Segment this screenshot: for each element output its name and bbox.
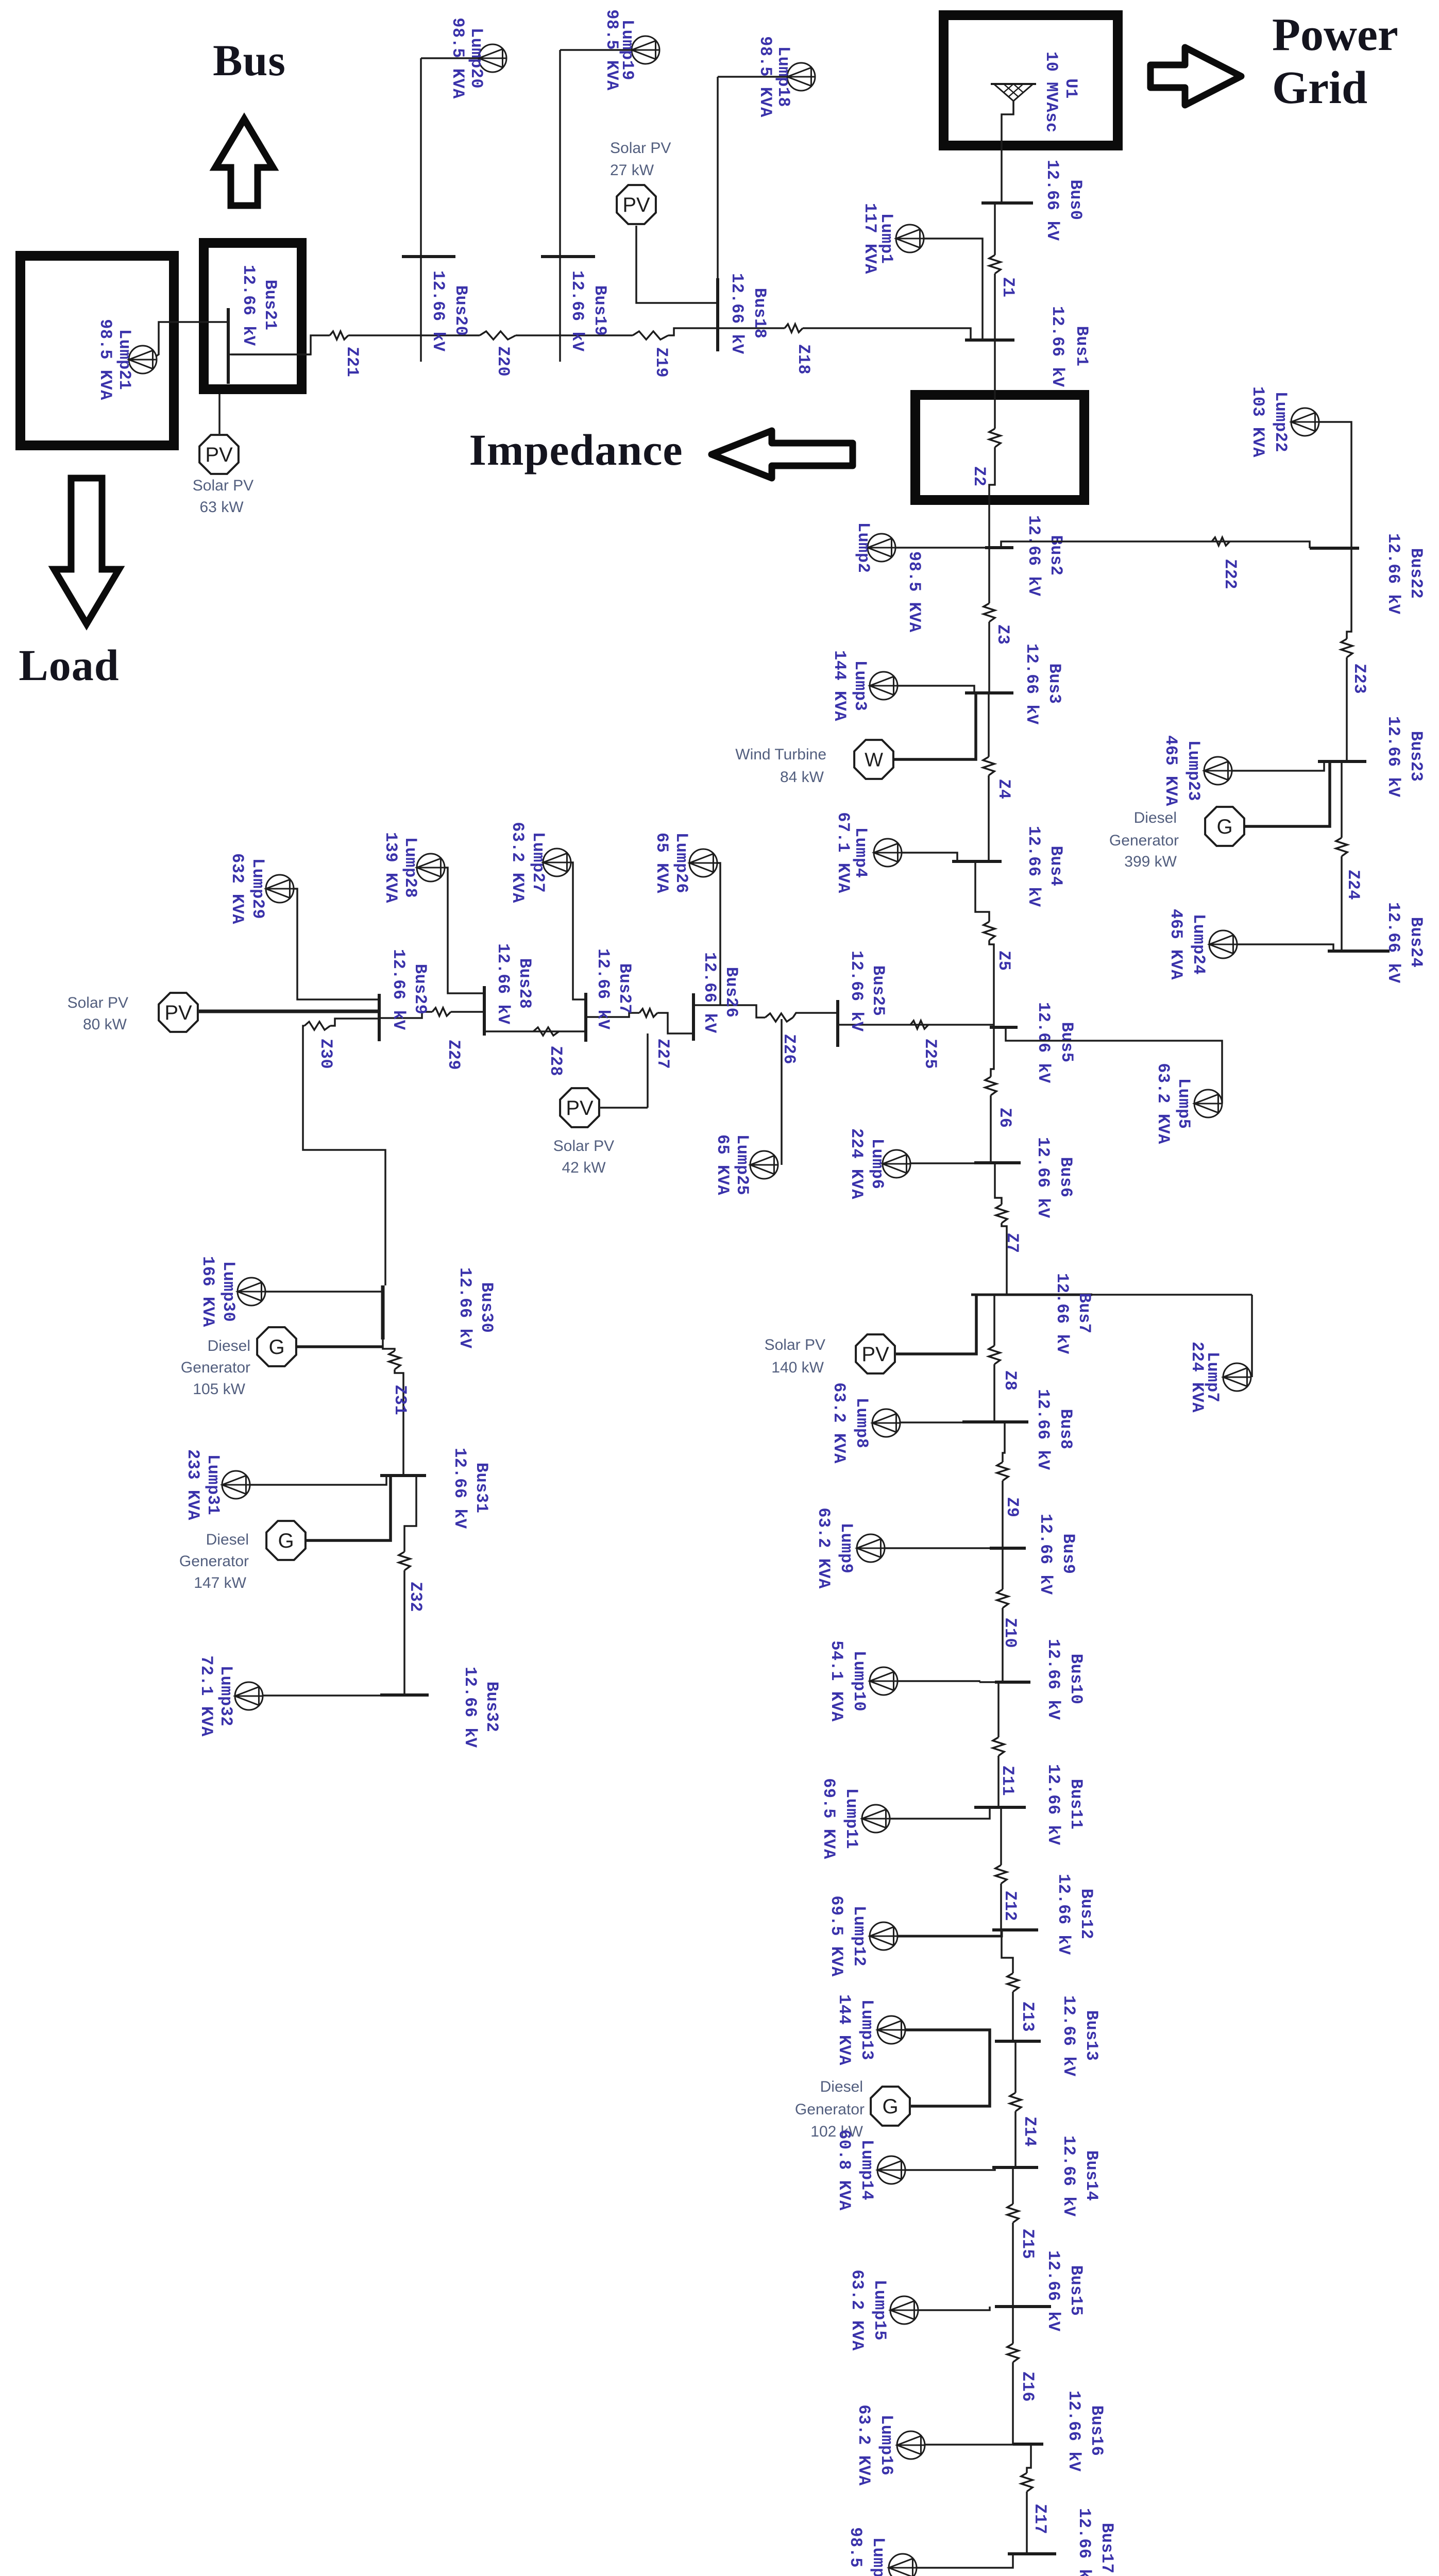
svg-text:12.66 kV: 12.66 kV xyxy=(1384,716,1403,798)
svg-text:Bus21: Bus21 xyxy=(261,280,280,331)
svg-text:Lump29: Lump29 xyxy=(248,858,267,919)
svg-text:Bus31: Bus31 xyxy=(472,1463,491,1514)
svg-text:Z16: Z16 xyxy=(1018,2371,1037,2402)
svg-text:Bus18: Bus18 xyxy=(750,288,769,339)
svg-text:12.66 kV: 12.66 kV xyxy=(1036,1514,1055,1595)
svg-text:65 KVA: 65 KVA xyxy=(713,1134,732,1196)
svg-text:Bus30: Bus30 xyxy=(477,1282,496,1333)
svg-text:Generator: Generator xyxy=(179,1553,249,1570)
svg-text:Bus15: Bus15 xyxy=(1066,2265,1086,2316)
svg-text:117 KVA: 117 KVA xyxy=(860,203,879,274)
svg-text:98.5 KVA: 98.5 KVA xyxy=(96,319,115,400)
svg-text:Generator: Generator xyxy=(1109,832,1179,849)
svg-text:Solar PV: Solar PV xyxy=(610,140,671,157)
svg-text:63.2 KVA: 63.2 KVA xyxy=(829,1382,849,1464)
svg-text:84 kW: 84 kW xyxy=(780,769,824,786)
svg-text:63.2 KVA: 63.2 KVA xyxy=(854,2404,873,2486)
svg-text:Bus26: Bus26 xyxy=(722,967,741,1018)
svg-text:Bus8: Bus8 xyxy=(1056,1409,1075,1450)
svg-text:54.1 KVA: 54.1 KVA xyxy=(827,1640,846,1722)
svg-text:Z5: Z5 xyxy=(994,951,1013,971)
svg-text:12.66 kV: 12.66 kV xyxy=(568,270,587,352)
svg-text:Lump25: Lump25 xyxy=(733,1134,752,1195)
svg-text:Lump27: Lump27 xyxy=(529,832,548,893)
svg-text:Bus32: Bus32 xyxy=(482,1682,501,1733)
svg-text:140 kW: 140 kW xyxy=(771,1359,824,1376)
svg-text:Solar PV: Solar PV xyxy=(193,477,253,494)
svg-text:Bus7: Bus7 xyxy=(1075,1293,1094,1334)
svg-text:67.1 KVA: 67.1 KVA xyxy=(834,812,853,893)
svg-text:Lump12: Lump12 xyxy=(850,1906,869,1967)
svg-text:12.66 kV: 12.66 kV xyxy=(1048,306,1067,387)
svg-text:12.66 kV: 12.66 kV xyxy=(389,949,408,1030)
svg-text:63.2 KVA: 63.2 KVA xyxy=(1154,1063,1173,1144)
svg-text:12.66 kV: 12.66 kV xyxy=(1064,2391,1084,2472)
svg-text:Lump16: Lump16 xyxy=(877,2415,896,2476)
svg-text:Bus13: Bus13 xyxy=(1082,2010,1101,2061)
svg-text:65 KVA: 65 KVA xyxy=(652,833,671,894)
svg-text:Lump23: Lump23 xyxy=(1184,740,1203,801)
svg-text:Lump4: Lump4 xyxy=(851,827,870,878)
svg-text:Lump24: Lump24 xyxy=(1189,914,1208,975)
svg-text:Lump9: Lump9 xyxy=(837,1523,856,1574)
svg-text:Bus19: Bus19 xyxy=(590,285,610,336)
svg-text:Lump3: Lump3 xyxy=(851,660,870,711)
svg-text:12.66 kV: 12.66 kV xyxy=(450,1448,469,1529)
svg-text:399 kW: 399 kW xyxy=(1124,853,1177,870)
svg-text:Bus28: Bus28 xyxy=(515,958,534,1009)
svg-text:Z23: Z23 xyxy=(1350,664,1369,694)
svg-text:Z9: Z9 xyxy=(1003,1497,1022,1517)
svg-text:Z21: Z21 xyxy=(343,347,362,377)
svg-text:Lump21: Lump21 xyxy=(115,329,134,390)
svg-text:PV: PV xyxy=(566,1097,594,1120)
svg-text:12.66 kV: 12.66 kV xyxy=(494,943,513,1025)
svg-text:Z32: Z32 xyxy=(406,1582,425,1612)
svg-text:105 kW: 105 kW xyxy=(193,1381,245,1398)
svg-text:Power: Power xyxy=(1272,9,1398,60)
svg-text:12.66 kV: 12.66 kV xyxy=(1034,1002,1053,1083)
svg-text:147 kW: 147 kW xyxy=(194,1574,246,1591)
svg-text:12.66 kV: 12.66 kV xyxy=(594,948,613,1030)
svg-text:Wind Turbine: Wind Turbine xyxy=(735,746,826,763)
svg-text:Z18: Z18 xyxy=(794,344,813,375)
svg-text:80 kW: 80 kW xyxy=(83,1016,127,1033)
svg-text:Lump30: Lump30 xyxy=(219,1261,238,1322)
svg-text:Z10: Z10 xyxy=(1001,1618,1020,1648)
svg-text:Z27: Z27 xyxy=(653,1039,672,1069)
svg-text:Bus22: Bus22 xyxy=(1407,548,1426,599)
svg-text:103 KVA: 103 KVA xyxy=(1248,386,1267,457)
svg-text:Diesel: Diesel xyxy=(1134,809,1177,826)
svg-text:12.66 kV: 12.66 kV xyxy=(1059,2136,1078,2217)
svg-text:69.5 KVA: 69.5 KVA xyxy=(819,1778,838,1859)
svg-text:12.66 kV: 12.66 kV xyxy=(1043,160,1062,241)
svg-text:Z19: Z19 xyxy=(652,347,671,378)
svg-text:Grid: Grid xyxy=(1272,62,1367,113)
svg-text:12.66 kV: 12.66 kV xyxy=(455,1267,475,1349)
svg-text:Bus1: Bus1 xyxy=(1072,326,1091,367)
svg-text:Lump26: Lump26 xyxy=(672,833,691,893)
svg-text:Solar PV: Solar PV xyxy=(553,1138,614,1155)
svg-text:98.5 KVA: 98.5 KVA xyxy=(905,551,924,633)
svg-text:Bus14: Bus14 xyxy=(1082,2150,1101,2201)
svg-text:Z14: Z14 xyxy=(1020,2116,1039,2147)
svg-text:144 KVA: 144 KVA xyxy=(835,1994,854,2065)
svg-text:Bus4: Bus4 xyxy=(1046,846,1065,887)
svg-text:Z20: Z20 xyxy=(494,346,513,377)
svg-text:Bus3: Bus3 xyxy=(1045,664,1064,704)
svg-text:Z4: Z4 xyxy=(994,779,1013,799)
svg-text:Bus9: Bus9 xyxy=(1059,1534,1078,1574)
svg-text:Lump11: Lump11 xyxy=(842,1788,861,1849)
svg-text:Bus10: Bus10 xyxy=(1066,1654,1086,1705)
svg-text:Bus17: Bus17 xyxy=(1097,2523,1116,2574)
svg-text:PV: PV xyxy=(205,444,233,466)
svg-text:Z30: Z30 xyxy=(316,1039,335,1069)
svg-text:G: G xyxy=(278,1530,294,1552)
svg-text:72.1 KVA: 72.1 KVA xyxy=(197,1655,216,1737)
svg-text:27 kW: 27 kW xyxy=(610,162,654,179)
svg-text:233 KVA: 233 KVA xyxy=(183,1449,202,1520)
svg-text:Lump32: Lump32 xyxy=(216,1666,235,1726)
svg-text:Z7: Z7 xyxy=(1003,1233,1022,1253)
svg-text:Lump22: Lump22 xyxy=(1271,392,1290,452)
svg-text:Z8: Z8 xyxy=(1001,1370,1020,1391)
svg-text:Lump15: Lump15 xyxy=(870,2280,889,2341)
svg-text:12.66 kV: 12.66 kV xyxy=(1022,643,1041,725)
svg-text:W: W xyxy=(865,749,883,771)
svg-text:Load: Load xyxy=(19,640,119,690)
svg-text:Z15: Z15 xyxy=(1018,2229,1037,2259)
svg-text:Bus: Bus xyxy=(213,36,286,85)
svg-text:12.66 kV: 12.66 kV xyxy=(1059,1995,1078,2077)
svg-text:Bus16: Bus16 xyxy=(1087,2405,1106,2456)
svg-text:Z28: Z28 xyxy=(546,1046,565,1076)
svg-text:Z3: Z3 xyxy=(993,624,1012,645)
svg-text:12.66 kV: 12.66 kV xyxy=(1024,826,1043,907)
svg-text:Bus12: Bus12 xyxy=(1077,1889,1096,1940)
svg-text:Lump13: Lump13 xyxy=(857,1999,876,2060)
svg-text:Diesel: Diesel xyxy=(820,2078,863,2095)
svg-text:G: G xyxy=(882,2095,898,2118)
svg-text:632 KVA: 632 KVA xyxy=(228,853,247,924)
svg-text:Z25: Z25 xyxy=(921,1039,940,1069)
svg-text:U1: U1 xyxy=(1061,78,1080,98)
svg-text:Bus25: Bus25 xyxy=(869,965,888,1016)
svg-text:Bus23: Bus23 xyxy=(1407,731,1426,782)
svg-text:12.66 kV: 12.66 kV xyxy=(847,951,866,1032)
svg-text:Lump6: Lump6 xyxy=(868,1139,887,1190)
svg-text:Z12: Z12 xyxy=(1001,1891,1020,1921)
svg-text:PV: PV xyxy=(622,194,650,216)
svg-text:Z11: Z11 xyxy=(998,1766,1017,1796)
svg-text:98.5 KVA: 98.5 KVA xyxy=(846,2527,865,2576)
svg-text:Solar PV: Solar PV xyxy=(67,994,128,1011)
svg-text:224 KVA: 224 KVA xyxy=(847,1128,866,1199)
svg-text:12.66 kV: 12.66 kV xyxy=(1044,1764,1063,1845)
svg-text:63.2 KVA: 63.2 KVA xyxy=(814,1507,833,1589)
svg-text:Bus0: Bus0 xyxy=(1066,180,1085,221)
svg-text:Z2: Z2 xyxy=(970,466,989,486)
svg-text:Generator: Generator xyxy=(181,1359,250,1376)
svg-text:Z24: Z24 xyxy=(1344,870,1363,900)
svg-text:Bus29: Bus29 xyxy=(411,964,430,1015)
svg-text:Lump14: Lump14 xyxy=(857,2140,876,2200)
svg-text:PV: PV xyxy=(164,1002,192,1024)
svg-text:G: G xyxy=(1216,816,1232,838)
svg-text:12.66 kV: 12.66 kV xyxy=(1053,1273,1072,1354)
svg-text:12.66 kV: 12.66 kV xyxy=(1034,1389,1053,1470)
svg-text:60.8 KVA: 60.8 KVA xyxy=(835,2129,854,2211)
svg-text:Diesel: Diesel xyxy=(206,1531,249,1548)
svg-text:12.66 kV: 12.66 kV xyxy=(1054,1874,1073,1955)
svg-text:Z29: Z29 xyxy=(444,1040,463,1070)
svg-text:12.66 kV: 12.66 kV xyxy=(700,952,719,1033)
svg-text:Lump8: Lump8 xyxy=(852,1398,871,1449)
svg-text:465 KVA: 465 KVA xyxy=(1161,735,1180,806)
svg-text:Z1: Z1 xyxy=(998,277,1018,297)
svg-text:12.66 kV: 12.66 kV xyxy=(1034,1137,1053,1218)
svg-text:Bus5: Bus5 xyxy=(1057,1022,1076,1063)
svg-text:G: G xyxy=(268,1336,284,1359)
svg-text:Z6: Z6 xyxy=(995,1108,1014,1128)
svg-text:Diesel: Diesel xyxy=(208,1337,250,1354)
svg-text:144 KVA: 144 KVA xyxy=(830,650,849,721)
svg-text:Z22: Z22 xyxy=(1221,559,1240,589)
svg-text:Solar PV: Solar PV xyxy=(765,1336,825,1353)
svg-text:166 KVA: 166 KVA xyxy=(198,1256,217,1327)
svg-text:Z31: Z31 xyxy=(391,1385,410,1415)
svg-text:PV: PV xyxy=(861,1343,889,1366)
svg-text:Bus27: Bus27 xyxy=(615,963,634,1014)
svg-text:Bus6: Bus6 xyxy=(1056,1157,1075,1198)
svg-text:12.66 kV: 12.66 kV xyxy=(1384,533,1403,615)
svg-text:42 kW: 42 kW xyxy=(562,1159,606,1176)
svg-text:465 KVA: 465 KVA xyxy=(1166,909,1186,980)
svg-text:69.5 KVA: 69.5 KVA xyxy=(827,1895,846,1977)
svg-text:Bus11: Bus11 xyxy=(1066,1779,1086,1830)
svg-text:63.2 KVA: 63.2 KVA xyxy=(848,2269,867,2351)
svg-text:Impedance: Impedance xyxy=(469,425,683,474)
svg-text:12.66 kV: 12.66 kV xyxy=(429,270,448,352)
svg-text:Generator: Generator xyxy=(795,2101,865,2118)
svg-text:Bus24: Bus24 xyxy=(1407,917,1426,968)
svg-text:Lump10: Lump10 xyxy=(850,1651,869,1711)
svg-text:139 KVA: 139 KVA xyxy=(381,832,400,903)
svg-text:63.2 KVA: 63.2 KVA xyxy=(508,822,527,903)
svg-text:Lump17: Lump17 xyxy=(869,2537,888,2576)
svg-text:12.66 kV: 12.66 kV xyxy=(727,273,747,354)
svg-text:12.66 kV: 12.66 kV xyxy=(461,1667,480,1748)
svg-text:12.66 kV: 12.66 kV xyxy=(1044,1639,1063,1720)
svg-text:Lump28: Lump28 xyxy=(401,837,420,898)
svg-text:Bus20: Bus20 xyxy=(451,285,470,336)
svg-text:Lump31: Lump31 xyxy=(204,1454,223,1515)
svg-text:12.66 kV: 12.66 kV xyxy=(1044,2250,1063,2332)
svg-text:10 MVAsc: 10 MVAsc xyxy=(1042,52,1061,133)
svg-text:12.66 kV: 12.66 kV xyxy=(1384,902,1403,984)
svg-text:224 KVA: 224 KVA xyxy=(1188,1342,1207,1413)
svg-text:Z13: Z13 xyxy=(1018,2002,1037,2032)
svg-text:Lump5: Lump5 xyxy=(1174,1078,1193,1129)
svg-text:12.66 kV: 12.66 kV xyxy=(1075,2508,1094,2576)
svg-text:12.66 kV: 12.66 kV xyxy=(239,265,258,346)
svg-text:Z17: Z17 xyxy=(1030,2504,1049,2534)
svg-text:63 kW: 63 kW xyxy=(199,499,244,516)
svg-text:Lump2: Lump2 xyxy=(854,522,873,573)
svg-text:12.66 kV: 12.66 kV xyxy=(1024,515,1043,597)
